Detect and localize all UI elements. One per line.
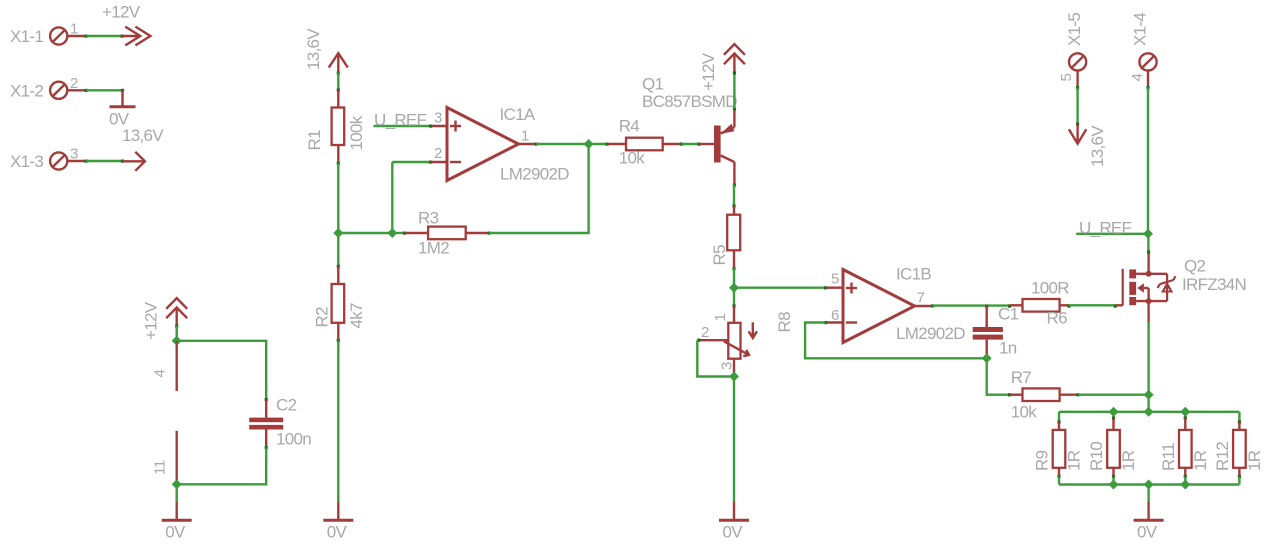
wire 13,6V arrow to R1 <box>337 72 340 92</box>
svg-text:1R: 1R <box>1119 450 1138 471</box>
op-amp IC1A <box>447 105 536 181</box>
ground 0V at R2 <box>323 502 353 542</box>
svg-text:X1-2: X1-2 <box>10 82 43 101</box>
svg-text:R7: R7 <box>1011 368 1032 387</box>
svg-text:IC1B: IC1B <box>896 265 931 284</box>
svg-text:0V: 0V <box>1137 523 1158 542</box>
svg-text:R1: R1 <box>305 130 324 151</box>
node junction R10 bottom <box>1109 480 1119 490</box>
node junction +12V/C2/pin4 <box>172 336 182 346</box>
svg-text:4k7: 4k7 <box>347 303 366 329</box>
svg-text:11: 11 <box>152 460 169 475</box>
resistor R5 <box>710 206 740 269</box>
svg-text:C1: C1 <box>998 305 1019 324</box>
resistor R12 <box>1213 412 1246 485</box>
svg-text:0V: 0V <box>723 523 744 542</box>
svg-text:R4: R4 <box>619 117 640 136</box>
svg-text:1R: 1R <box>1065 450 1084 471</box>
svg-text:R10: R10 <box>1087 442 1106 471</box>
svg-text:1M2: 1M2 <box>418 239 449 258</box>
svg-text:X1-3: X1-3 <box>10 152 43 171</box>
ground 0V at C2 <box>162 502 192 542</box>
svg-text:R11: R11 <box>1159 443 1178 471</box>
op-amp IC1B <box>843 265 931 343</box>
transistor Q1 <box>642 75 734 185</box>
mosfet Q2 <box>1115 253 1205 322</box>
wire bottom rail of shunt bank <box>1059 483 1239 485</box>
ground 0V at R8 <box>719 502 749 542</box>
supply +12V (right arrow) <box>102 3 150 46</box>
node junction R1/R2/R3 <box>333 228 343 238</box>
pin lead X1-2 <box>68 89 87 91</box>
svg-text:U_REF: U_REF <box>374 111 427 130</box>
resistor R9 <box>1033 412 1066 485</box>
svg-text:+12V: +12V <box>699 52 718 91</box>
node junction U_REF/X1-4 <box>1143 229 1153 239</box>
supply +12V (double up arrow at Q1) <box>699 44 745 91</box>
pin 11 power stub of IC1 <box>152 431 177 485</box>
svg-text:X1-5: X1-5 <box>1065 13 1084 46</box>
node junction C2/pin11/ground <box>172 479 182 489</box>
wire node to IC1B pin5 <box>734 286 827 289</box>
node junction R5/pot/IC1B <box>729 283 739 293</box>
resistor R4 <box>607 117 682 151</box>
wire R8 node to ground <box>733 377 735 503</box>
pin 2 of IC1A <box>431 145 448 162</box>
wire node to C2 top <box>177 341 267 400</box>
wire Q1 emitter to +12V <box>733 71 736 110</box>
node junction R7/source <box>1144 390 1154 400</box>
node junction output/feedback <box>584 139 594 149</box>
svg-text:1: 1 <box>712 313 729 321</box>
resistor R11 <box>1159 412 1192 485</box>
svg-text:1R: 1R <box>1245 450 1264 471</box>
pin lead X1-4 <box>1147 71 1149 88</box>
resistor R7 <box>1008 368 1078 401</box>
connector X1-5 <box>1065 13 1086 71</box>
resistor R1 <box>305 90 344 163</box>
wire X1-2 to ground <box>85 89 125 92</box>
wire R6 to Q2 gate <box>1068 305 1117 308</box>
svg-text:C2: C2 <box>276 396 297 415</box>
svg-text:3: 3 <box>719 362 736 370</box>
svg-text:5: 5 <box>831 271 839 288</box>
node junction R8 pin3 <box>729 372 739 382</box>
wire R8 wiper to pin3 <box>697 339 734 377</box>
node junction rail/ground <box>1144 480 1154 490</box>
svg-text:2: 2 <box>701 324 709 341</box>
pin lead X1-1 <box>68 35 87 37</box>
resistor R6 <box>1010 279 1070 312</box>
resistor R2 <box>313 266 345 341</box>
wire R2 to ground <box>337 339 340 502</box>
wire X1-5 to 13,6V <box>1076 86 1079 126</box>
wire U_REF right <box>1076 233 1148 235</box>
wire U_REF to pin3 <box>374 125 433 128</box>
pin 3 of IC1A <box>431 109 448 126</box>
svg-text:100k: 100k <box>347 115 366 150</box>
wire X1-1 to +12V <box>85 35 124 38</box>
wire X1-3 to 13,6V <box>85 160 125 163</box>
svg-text:13,6V: 13,6V <box>1088 125 1107 167</box>
capacitor C1 <box>973 305 1019 358</box>
pin lead X1-3 <box>68 160 87 162</box>
svg-text:R2: R2 <box>313 307 332 328</box>
node junction source/top rail <box>1144 407 1154 417</box>
wire C1 node to R7 <box>987 358 1010 394</box>
svg-text:100R: 100R <box>1031 279 1069 298</box>
node junction feedback/pin2 <box>387 228 397 238</box>
wire R1 to R2 <box>337 162 340 268</box>
svg-text:4: 4 <box>1129 73 1146 81</box>
wire R3 to output node <box>488 144 589 235</box>
svg-text:1n: 1n <box>999 339 1017 358</box>
svg-text:R6: R6 <box>1047 309 1068 328</box>
svg-text:LM2902D: LM2902D <box>500 165 569 184</box>
svg-text:+12V: +12V <box>142 301 161 340</box>
svg-text:0V: 0V <box>165 523 186 542</box>
supply 13,6V (down arrow at X1-5) <box>1069 124 1107 167</box>
supply +12V (double up arrow at C2) <box>142 298 188 340</box>
svg-text:100n: 100n <box>276 430 311 449</box>
wire R5 to node <box>732 267 735 287</box>
svg-text:13,6V: 13,6V <box>304 28 323 70</box>
ground 0V at X1-2 <box>109 90 136 128</box>
capacitor C2 <box>249 396 296 450</box>
wire node to ground at C2 <box>175 484 177 502</box>
svg-text:7: 7 <box>917 290 925 307</box>
svg-text:Q2: Q2 <box>1184 257 1206 276</box>
wire top rail of shunt bank <box>1059 411 1239 413</box>
wire rail to ground <box>1147 485 1149 503</box>
svg-text:+12V: +12V <box>102 3 141 22</box>
svg-text:13,6V: 13,6V <box>122 126 164 145</box>
pin 1 of IC1A <box>519 128 537 145</box>
wire pin2 vertical <box>392 161 432 234</box>
wire IC1A output <box>535 143 609 146</box>
svg-text:1R: 1R <box>1191 450 1210 471</box>
svg-text:R12: R12 <box>1213 442 1232 471</box>
node junction R10 top <box>1109 407 1119 417</box>
wire junction to junction pin2 <box>338 232 392 234</box>
node junction R11 top <box>1180 407 1190 417</box>
svg-text:10k: 10k <box>619 149 646 168</box>
wire +12V to node <box>175 325 178 341</box>
pin 7 of IC1B <box>915 290 933 307</box>
svg-text:U_REF: U_REF <box>1079 218 1132 237</box>
svg-text:R8: R8 <box>775 312 794 333</box>
wire IC1B output to R6 <box>931 304 1011 307</box>
supply 13,6V (right arrow) <box>123 152 145 171</box>
svg-text:X1-4: X1-4 <box>1131 13 1150 46</box>
wire junction to R3 <box>392 232 406 235</box>
pin 6 of IC1B <box>826 307 844 324</box>
wire Q2 source down <box>1147 322 1149 411</box>
svg-text:X1-1: X1-1 <box>10 27 43 46</box>
svg-text:LM2902D: LM2902D <box>896 324 965 343</box>
svg-text:5: 5 <box>1058 73 1075 81</box>
svg-text:10k: 10k <box>1011 403 1038 422</box>
svg-text:IC1A: IC1A <box>500 105 536 124</box>
wire Q1 collector to R5 <box>732 184 736 208</box>
wire X1-4 to Q2 drain <box>1146 86 1150 254</box>
resistor R10 <box>1087 412 1120 485</box>
node junction C1/feedback/R7 <box>982 353 992 363</box>
svg-text:R3: R3 <box>418 209 439 228</box>
svg-text:6: 6 <box>831 307 839 324</box>
wire R7 to source node <box>1077 393 1149 396</box>
connector X1-2 <box>10 82 67 101</box>
svg-text:2: 2 <box>434 145 442 162</box>
node junction R11 bottom <box>1180 480 1190 490</box>
svg-text:R9: R9 <box>1033 450 1052 471</box>
pin 5 of IC1B <box>826 271 844 288</box>
potentiometer R8 <box>700 288 794 374</box>
svg-text:Q1: Q1 <box>642 75 664 94</box>
pin 4 power stub of IC1 <box>152 341 177 391</box>
wire C2 bottom to node <box>177 448 267 485</box>
svg-text:1: 1 <box>521 128 529 145</box>
svg-text:4: 4 <box>152 369 169 377</box>
wire R4 to Q1 base <box>680 143 701 146</box>
pin lead X1-5 <box>1076 71 1078 88</box>
ground 0V at shunt bank <box>1134 502 1164 542</box>
wire IC1B pin6 feedback <box>805 321 987 358</box>
svg-text:BC857BSMD: BC857BSMD <box>642 92 737 111</box>
supply 13,6V (up arrow at R1) <box>304 28 348 72</box>
connector X1-4 <box>1131 13 1157 71</box>
resistor R3 <box>405 209 490 240</box>
svg-text:R5: R5 <box>710 245 729 266</box>
svg-text:3: 3 <box>434 109 442 126</box>
svg-text:0V: 0V <box>327 523 348 542</box>
connector X1-3 <box>10 152 67 171</box>
svg-text:IRFZ34N: IRFZ34N <box>1182 275 1246 294</box>
connector X1-1 <box>10 27 67 46</box>
